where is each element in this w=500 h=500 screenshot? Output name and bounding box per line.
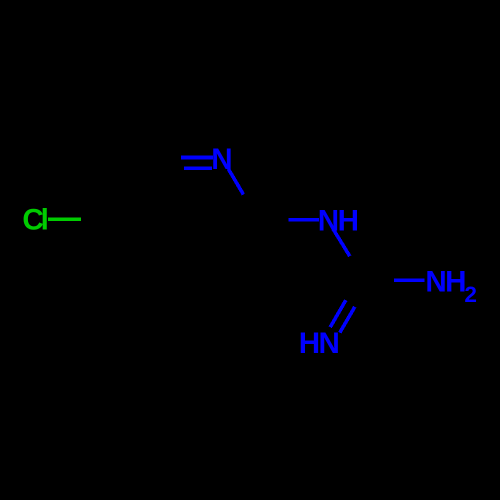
svg-text:2: 2 (464, 282, 476, 307)
svg-text:N: N (211, 143, 231, 176)
svg-text:NH: NH (318, 204, 358, 237)
svg-text:Cl: Cl (22, 204, 47, 237)
svg-text:NH: NH (425, 266, 465, 299)
svg-text:HN: HN (299, 327, 339, 360)
